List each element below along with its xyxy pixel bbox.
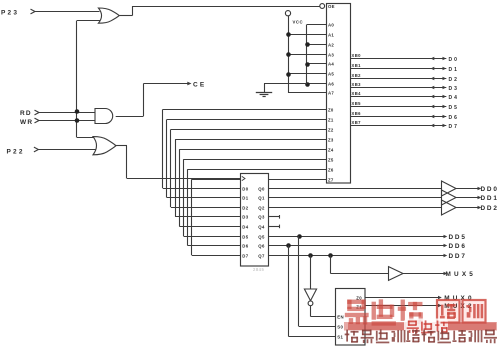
svg-text:D 7: D 7 (449, 124, 458, 130)
svg-text:XB0: XB0 (352, 53, 362, 58)
svg-text:D0: D0 (242, 187, 248, 192)
watermark boxed char 1 (437, 300, 460, 323)
wire VCC rail to A1 A3 A5 A7 (288, 16, 290, 93)
svg-text:P22: P22 (7, 148, 25, 155)
svg-text:XB7: XB7 (352, 120, 362, 125)
pin OE of U1 (320, 4, 325, 9)
svg-text:XB3: XB3 (352, 82, 362, 87)
wire U2 Q3 stub (269, 216, 280, 218)
svg-text:Z0: Z0 (328, 108, 334, 113)
wire U1 Z3 to U2 D3 (175, 139, 326, 141)
svg-text:P23: P23 (1, 10, 19, 17)
svg-text:DD6: DD6 (449, 243, 467, 250)
wire U1 Z1 to U2 D1 (167, 119, 327, 121)
junction WR tap (75, 118, 80, 123)
svg-text:D 6: D 6 (449, 115, 458, 121)
svg-text:VCC: VCC (293, 20, 304, 25)
svg-text:OE: OE (328, 4, 335, 9)
wire U2 Q6 to DD6 (269, 245, 445, 247)
watermark slogan row (345, 329, 497, 343)
svg-text:D7: D7 (242, 254, 248, 259)
wire U4B upper input (77, 137, 96, 139)
svg-text:RD: RD (20, 110, 32, 117)
svg-text:MUX5: MUX5 (446, 271, 477, 278)
svg-text:Q4: Q4 (258, 225, 265, 230)
junction DD7 tap buffer (328, 253, 333, 258)
svg-text:Z3: Z3 (328, 138, 334, 143)
svg-text:XB5: XB5 (352, 101, 362, 106)
svg-text:XB2: XB2 (352, 73, 362, 78)
svg-text:A6: A6 (328, 82, 334, 87)
wire U1 Z5 to U2 D5 (184, 159, 327, 161)
svg-text:A7: A7 (328, 91, 334, 96)
svg-text:S0: S0 (337, 325, 343, 330)
junction VCC-A5 (286, 72, 291, 77)
wire U3 Z0 to MUX0 (365, 297, 439, 299)
svg-text:Q3: Q3 (258, 215, 265, 220)
svg-text:D6: D6 (242, 244, 248, 249)
watermark logo box (404, 319, 448, 336)
wire XB3 to D3 (351, 87, 447, 89)
svg-text:Q0: Q0 (258, 187, 265, 192)
svg-text:A3: A3 (328, 53, 334, 58)
wire U4B output to U2 LE (115, 145, 127, 147)
or-gate U4B (93, 137, 116, 155)
wire DD7 tap to buffer U6D (330, 256, 332, 274)
junction GND-A6 (305, 82, 310, 87)
svg-text:A5: A5 (328, 72, 334, 77)
wire U3 Z1 to MUX2 (365, 305, 439, 307)
pin A0 of U1 (307, 24, 327, 26)
buffer U6B (442, 190, 457, 205)
wire XB5 to D5 (351, 106, 447, 108)
wire U2 Q5 to DD5 (269, 236, 445, 238)
junction GND-A2 (305, 42, 310, 47)
inverter U7A (304, 289, 316, 301)
wire XB1 to D1 (351, 68, 447, 70)
wire XB0 to D0 (351, 58, 447, 60)
svg-text:D 0: D 0 (449, 57, 458, 63)
watermark band (344, 322, 497, 331)
wire U1 Z0 to U2 D0 (163, 109, 327, 111)
wire U4A output to U1 OE (119, 15, 132, 17)
and-gate U5A (95, 109, 113, 124)
junction RD tap (75, 109, 80, 114)
svg-text:Z6: Z6 (328, 168, 334, 173)
svg-text:Q1: Q1 (258, 196, 265, 201)
svg-text:XB6: XB6 (352, 111, 362, 116)
wire U1 Z6 to U2 D6 (188, 169, 327, 171)
wire P22 to U4B input (38, 149, 95, 151)
buffer U6C (442, 200, 457, 215)
wire U5A output to CE (116, 116, 144, 118)
wire U1 Z2 to U2 D2 (171, 129, 327, 131)
svg-text:D 2: D 2 (449, 77, 458, 83)
svg-text:Z2: Z2 (328, 128, 334, 133)
svg-text:WR: WR (20, 119, 33, 126)
or-gate U4A (98, 8, 119, 23)
svg-text:Z7: Z7 (328, 178, 334, 183)
ground (256, 92, 272, 94)
wire DD5 tap to U3 S0 (298, 236, 300, 327)
wire buffer out DD0 (456, 188, 478, 190)
wire WR to U5A (39, 120, 95, 122)
svg-text:CE: CE (193, 81, 206, 88)
svg-text:Q5: Q5 (258, 235, 265, 240)
svg-text:Z4: Z4 (328, 148, 334, 153)
wire buffer out DD1 (456, 197, 478, 199)
svg-text:2845: 2845 (253, 267, 264, 272)
wire U1 Z7 to U2 D7 (192, 179, 327, 181)
wire U2 Q7 to DD7 (269, 255, 445, 257)
svg-text:D 4: D 4 (449, 95, 458, 101)
svg-text:Q7: Q7 (258, 254, 265, 259)
wire U2 Q0 to buffer U6 (269, 188, 442, 190)
svg-text:Z5: Z5 (328, 158, 334, 163)
pin A4 of U1 (307, 63, 327, 65)
svg-text:DD7: DD7 (449, 253, 467, 260)
wire XB6 to D6 (351, 116, 447, 118)
svg-text:EN: EN (337, 315, 344, 320)
svg-text:DD0: DD0 (481, 186, 499, 193)
svg-text:A4: A4 (328, 62, 334, 67)
wire DD6 tap to U3 S1 (288, 246, 290, 337)
latch U2 (241, 174, 269, 267)
svg-text:A2: A2 (328, 43, 334, 48)
wire U2 Q2 to buffer U6 (269, 207, 442, 209)
wire U2 Q4 stub (269, 226, 280, 228)
pin A6 of U1 (307, 83, 327, 85)
svg-text:A1: A1 (328, 33, 334, 38)
pin A7 of U1 (288, 92, 327, 94)
svg-text:D4: D4 (242, 225, 248, 230)
wire RD junction to U4A and U4B inputs (76, 21, 78, 138)
wire ground rail to A0 A2 A4 A6 (306, 24, 308, 83)
svg-text:XB1: XB1 (352, 63, 362, 68)
pin A2 of U1 (307, 44, 327, 46)
wire RD to U5A (39, 112, 95, 114)
svg-text:Z1: Z1 (328, 118, 334, 123)
power VCC (285, 11, 290, 16)
svg-text:A0: A0 (328, 23, 334, 28)
wire XB7 to D7 (351, 125, 447, 127)
watermark big text row (345, 299, 423, 325)
pin A3 of U1 (288, 54, 327, 56)
svg-text:D 1: D 1 (449, 67, 458, 73)
wire U7A output to U3 EN (310, 306, 312, 317)
wire U2 Q1 to buffer U6 (269, 197, 442, 199)
svg-text:DD2: DD2 (481, 205, 499, 212)
wire U6D output MUX5 (403, 273, 444, 275)
svg-text:DD5: DD5 (449, 234, 467, 241)
decoder U3 (336, 289, 366, 346)
junction DD7 tap inverter (308, 253, 313, 258)
junction VCC-A3 (286, 52, 291, 57)
wire P23 to U4A input (35, 11, 100, 13)
wire XB4 to D4 (351, 96, 447, 98)
junction DD5 tap (297, 234, 302, 239)
svg-text:DD1: DD1 (481, 195, 499, 202)
svg-text:D 5: D 5 (449, 105, 458, 111)
watermark boxed char 2 (463, 300, 486, 323)
svg-text:D5: D5 (242, 235, 248, 240)
junction GND-A4 (305, 62, 310, 67)
wire A6 to ground (264, 83, 307, 85)
svg-text:Q6: Q6 (258, 244, 265, 249)
memory chip U1 (327, 4, 351, 184)
wire U1 Z4 to U2 D4 (179, 149, 326, 151)
pin LE of U2 (242, 176, 245, 180)
svg-text:Q2: Q2 (258, 206, 265, 211)
pin A5 of U1 (288, 73, 327, 75)
junction VCC-A1 (286, 32, 291, 37)
svg-text:D 3: D 3 (449, 86, 458, 92)
wire XB2 to D2 (351, 78, 447, 80)
svg-text:D1: D1 (242, 196, 248, 201)
junction DD6 tap (286, 243, 291, 248)
svg-text:D2: D2 (242, 206, 248, 211)
wire buffer out DD2 (456, 207, 478, 209)
wire DD7 tap to inverter U7A (310, 256, 312, 290)
buffer U6D (389, 267, 404, 281)
svg-text:S1: S1 (337, 335, 343, 340)
buffer U6A (442, 181, 457, 196)
pin A1 of U1 (288, 34, 327, 36)
svg-text:XB4: XB4 (352, 91, 362, 96)
svg-text:D3: D3 (242, 215, 248, 220)
